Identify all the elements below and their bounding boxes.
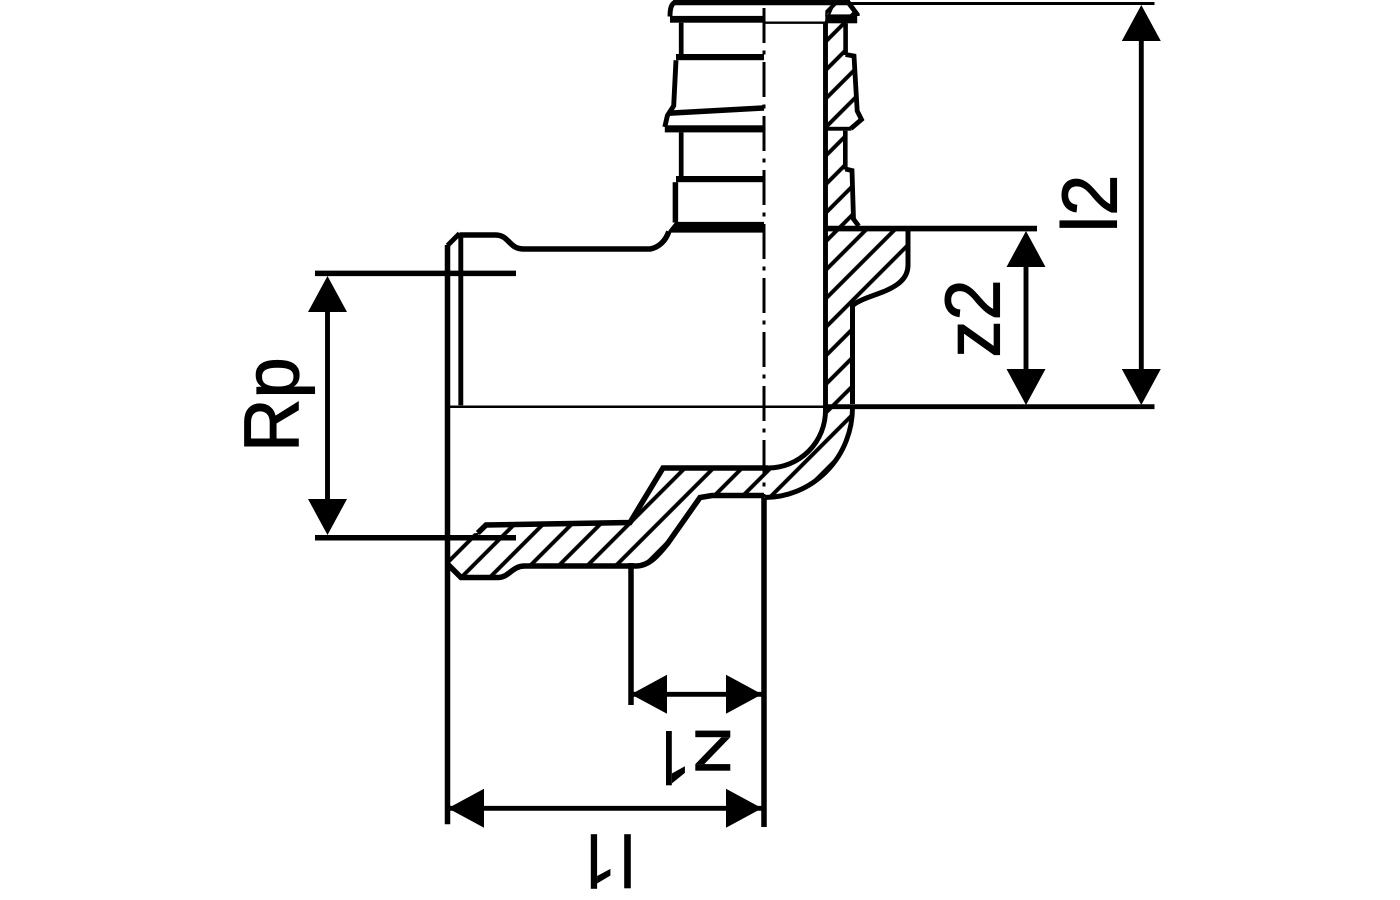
svg-text:Rp: Rp (229, 357, 316, 452)
svg-text:z2: z2 (930, 279, 1017, 357)
svg-text:l2: l2 (1047, 175, 1134, 233)
